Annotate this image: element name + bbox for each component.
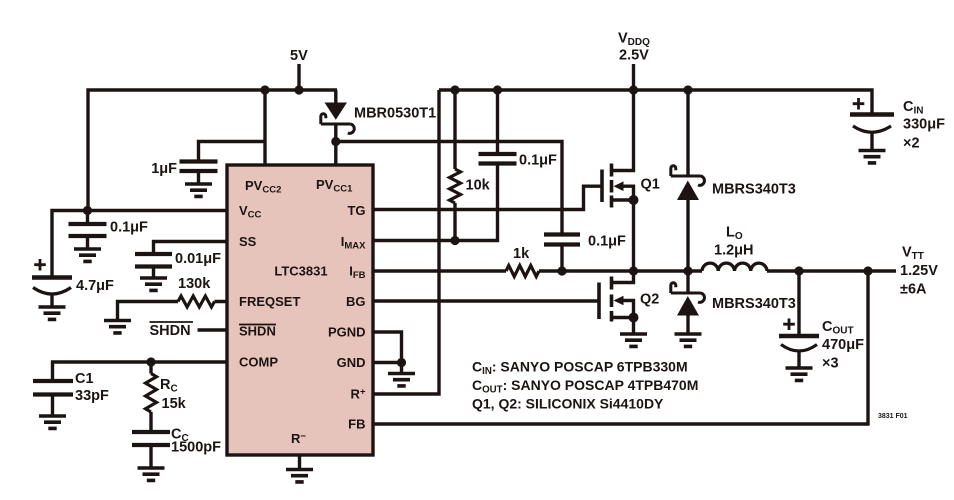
svg-text:15k: 15k xyxy=(162,396,187,412)
svg-text:130k: 130k xyxy=(178,276,211,292)
svg-text:5V: 5V xyxy=(290,48,308,64)
svg-text:GND: GND xyxy=(337,355,366,370)
svg-text:0.1μF: 0.1μF xyxy=(519,153,557,169)
svg-text:10k: 10k xyxy=(466,178,491,194)
svg-text:33pF: 33pF xyxy=(75,388,109,404)
svg-text:1k: 1k xyxy=(513,246,530,262)
svg-text:LTC3831: LTC3831 xyxy=(274,264,327,279)
svg-text:1500pF: 1500pF xyxy=(171,440,221,456)
svg-text:COUT: SANYO POSCAP 4TPB470M: COUT: SANYO POSCAP 4TPB470M xyxy=(472,377,698,396)
svg-text:0.01μF: 0.01μF xyxy=(175,251,221,267)
svg-text:SHDN: SHDN xyxy=(239,324,276,339)
svg-text:Q1: Q1 xyxy=(641,177,660,193)
svg-text:FB: FB xyxy=(348,417,365,432)
svg-text:PGND: PGND xyxy=(328,325,366,340)
svg-text:FREQSET: FREQSET xyxy=(239,294,300,309)
svg-text:C1: C1 xyxy=(75,371,94,387)
svg-text:COMP: COMP xyxy=(239,355,278,370)
svg-text:TG: TG xyxy=(347,203,365,218)
svg-text:1.2μH: 1.2μH xyxy=(714,243,754,259)
svg-text:2.5V: 2.5V xyxy=(619,48,649,64)
svg-text:SHDN: SHDN xyxy=(150,323,191,339)
svg-text:Q2: Q2 xyxy=(640,292,659,308)
svg-text:1μF: 1μF xyxy=(151,161,177,177)
svg-text:×3: ×3 xyxy=(822,356,839,372)
svg-text:1.25V: 1.25V xyxy=(900,263,938,279)
svg-text:3831 F01: 3831 F01 xyxy=(878,413,908,420)
svg-text:CIN: SANYO POSCAP 6TPB330M: CIN: SANYO POSCAP 6TPB330M xyxy=(472,359,688,378)
svg-text:±6A: ±6A xyxy=(900,282,927,298)
svg-text:MBR0530T1: MBR0530T1 xyxy=(354,106,436,122)
svg-text:0.1μF: 0.1μF xyxy=(110,220,148,236)
svg-text:4.7μF: 4.7μF xyxy=(76,278,114,294)
svg-text:470μF: 470μF xyxy=(822,337,864,353)
svg-text:MBRS340T3: MBRS340T3 xyxy=(712,296,796,312)
svg-text:MBRS340T3: MBRS340T3 xyxy=(712,182,796,198)
svg-text:Q1, Q2: SILICONIX Si4410DY: Q1, Q2: SILICONIX Si4410DY xyxy=(472,396,664,412)
svg-text:BG: BG xyxy=(346,294,366,309)
svg-text:330μF: 330μF xyxy=(903,117,945,133)
svg-text:SS: SS xyxy=(239,234,257,249)
svg-text:×2: ×2 xyxy=(903,136,920,152)
svg-text:0.1μF: 0.1μF xyxy=(588,234,626,250)
